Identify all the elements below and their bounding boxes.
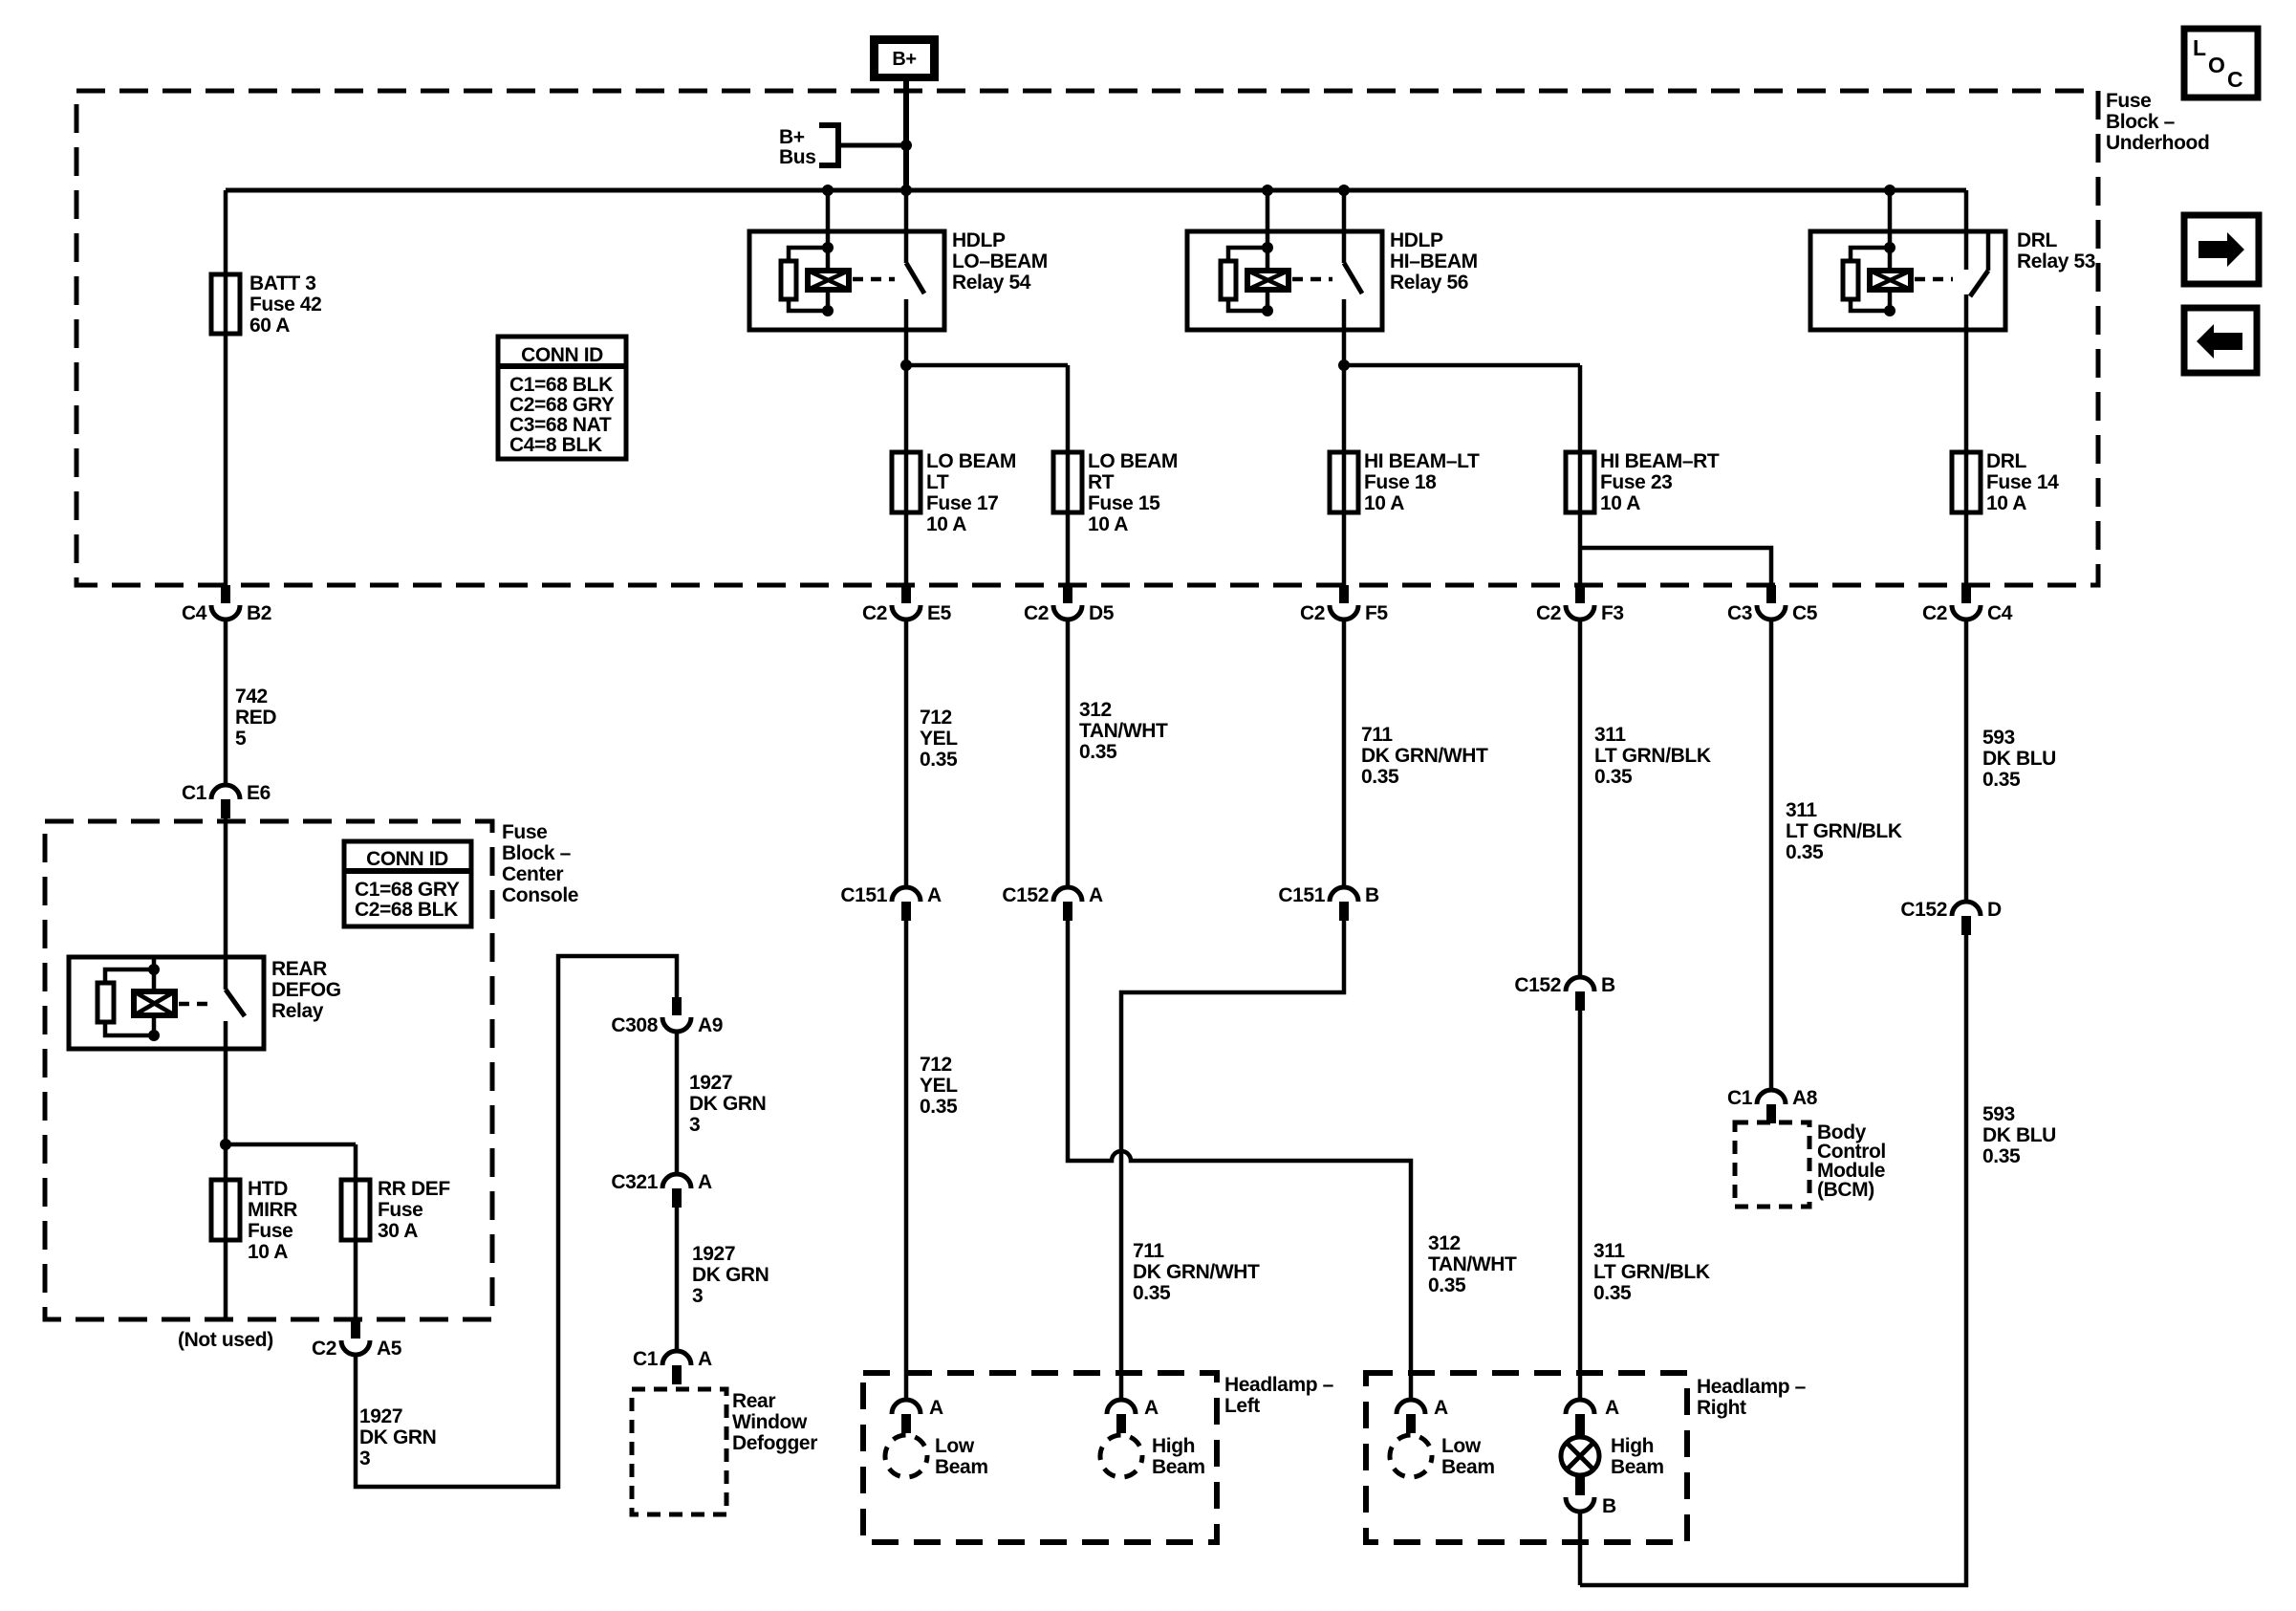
icon arrow right: [2184, 215, 2259, 284]
fuse HI BEAM-LT Fuse 18: [1330, 450, 1480, 514]
svg-text:0.35: 0.35: [1428, 1274, 1466, 1296]
svg-text:Relay 56: Relay 56: [1390, 272, 1468, 294]
svg-text:Relay 54: Relay 54: [952, 272, 1031, 294]
wire 712 YEL upper: [906, 620, 958, 887]
wire BATT fuse to C4: [224, 190, 228, 585]
svg-text:312: 312: [1428, 1232, 1461, 1254]
svg-text:C2: C2: [1922, 602, 1947, 624]
wire 311 LT GRN/BLK to BCM: [1771, 620, 1902, 1090]
svg-text:DEFOG: DEFOG: [271, 979, 341, 1001]
svg-text:Fuse 15: Fuse 15: [1088, 492, 1160, 514]
svg-text:593: 593: [1982, 1103, 2015, 1125]
svg-text:B+: B+: [779, 126, 805, 148]
svg-text:Relay: Relay: [271, 1000, 324, 1022]
svg-text:C4=8 BLK: C4=8 BLK: [509, 434, 602, 456]
fuse block underhood dashed box: [76, 91, 2098, 585]
svg-text:REAR: REAR: [271, 958, 327, 980]
svg-text:HI–BEAM: HI–BEAM: [1390, 250, 1478, 272]
svg-text:C1=68 GRY: C1=68 GRY: [355, 879, 460, 901]
module Body Control Module BCM: [1735, 1121, 1886, 1207]
relay HDLP HI-BEAM Relay 56: [1187, 190, 1478, 365]
svg-text:Beam: Beam: [935, 1456, 988, 1478]
svg-text:30 A: 30 A: [378, 1220, 418, 1242]
fuse LO BEAM LT Fuse 17: [892, 450, 1016, 535]
svg-text:0.35: 0.35: [1079, 741, 1117, 763]
svg-text:DK GRN: DK GRN: [689, 1093, 766, 1115]
wire 712 YEL lower: [906, 921, 958, 1400]
svg-text:E6: E6: [247, 782, 271, 804]
svg-text:(BCM): (BCM): [1817, 1179, 1874, 1201]
wire HTD MIRR not used: [178, 1144, 273, 1351]
svg-text:593: 593: [1982, 727, 2015, 749]
svg-text:Beam: Beam: [1611, 1456, 1664, 1478]
svg-text:A: A: [1434, 1397, 1448, 1419]
svg-text:TAN/WHT: TAN/WHT: [1079, 720, 1168, 742]
svg-text:HDLP: HDLP: [1390, 229, 1443, 251]
bulb high beam right: [1561, 1397, 1664, 1495]
wire 711 DK GRN/WHT upper: [1344, 620, 1488, 887]
svg-text:Fuse: Fuse: [378, 1199, 422, 1221]
svg-text:0.35: 0.35: [1982, 769, 2021, 791]
connector C4 B2: [182, 585, 271, 624]
wire 1927 DK GRN to C308: [356, 956, 677, 1487]
svg-text:LO BEAM: LO BEAM: [1088, 450, 1178, 472]
svg-text:0.35: 0.35: [1786, 841, 1824, 863]
svg-text:YEL: YEL: [920, 728, 958, 750]
svg-text:Underhood: Underhood: [2106, 132, 2209, 154]
connector C3 C5: [1727, 585, 1818, 624]
fuse block center console dashed box: [45, 821, 492, 1319]
svg-text:C151: C151: [1278, 884, 1325, 906]
connector C321 A: [611, 1171, 712, 1208]
svg-text:DK GRN: DK GRN: [359, 1426, 436, 1448]
svg-text:311: 311: [1594, 724, 1626, 746]
svg-text:B: B: [1601, 974, 1615, 996]
wire 311 LT GRN/BLK upper: [1580, 620, 1711, 977]
svg-text:0.35: 0.35: [1133, 1282, 1171, 1304]
node B+ Bus tap: [779, 125, 912, 168]
power symbol B+: [870, 35, 939, 81]
icon arrow left: [2184, 308, 2257, 373]
wire 1927 DK GRN lower: [677, 1208, 769, 1351]
svg-text:C2=68 GRY: C2=68 GRY: [509, 394, 615, 416]
svg-text:F3: F3: [1601, 602, 1624, 624]
label Fuse Block - Center Console: [502, 821, 578, 906]
svg-text:B+: B+: [892, 49, 916, 70]
svg-text:RED: RED: [235, 707, 276, 729]
svg-text:Block –: Block –: [502, 842, 572, 864]
wire 311 LT GRN/BLK lower: [1580, 1011, 1710, 1400]
svg-text:10 A: 10 A: [926, 513, 966, 535]
connector C1 A defogger: [633, 1348, 712, 1384]
svg-text:Beam: Beam: [1152, 1456, 1205, 1478]
connector C2 E5: [862, 585, 952, 624]
wire 593 DK BLU lower: [1580, 935, 2056, 1585]
svg-text:60 A: 60 A: [249, 315, 290, 337]
svg-text:C2: C2: [1300, 602, 1325, 624]
svg-text:311: 311: [1593, 1240, 1625, 1262]
fuse HTD MIRR 10A: [211, 1178, 297, 1263]
svg-text:A: A: [698, 1348, 712, 1370]
svg-text:711: 711: [1133, 1240, 1164, 1262]
svg-text:RR DEF: RR DEF: [378, 1178, 450, 1200]
svg-text:A5: A5: [377, 1338, 402, 1360]
wire HI-BEAM relay out / junction: [1338, 359, 1580, 371]
svg-text:Fuse: Fuse: [248, 1220, 292, 1242]
wire B+ feed: [903, 81, 909, 190]
wire fuse 23 to C2 F3 and C3 C5 branch: [1580, 365, 1771, 585]
svg-text:0.35: 0.35: [1982, 1145, 2021, 1167]
svg-text:LT: LT: [926, 471, 949, 493]
svg-text:0.35: 0.35: [1594, 766, 1633, 788]
svg-text:C2: C2: [312, 1338, 336, 1360]
svg-text:5: 5: [235, 728, 247, 750]
svg-text:0.35: 0.35: [1593, 1282, 1632, 1304]
bulb low beam left: [885, 1397, 988, 1478]
svg-text:312: 312: [1079, 699, 1112, 721]
svg-text:C308: C308: [611, 1014, 658, 1036]
svg-text:DK BLU: DK BLU: [1982, 1124, 2056, 1146]
bulb high beam left: [1100, 1397, 1205, 1478]
svg-text:High: High: [1611, 1435, 1654, 1457]
svg-text:D: D: [1987, 899, 2002, 921]
svg-text:C4: C4: [182, 602, 207, 624]
label Fuse Block - Underhood: [2106, 90, 2209, 154]
svg-text:712: 712: [920, 707, 952, 729]
headlamp left dashed box: [863, 1373, 1334, 1542]
svg-text:Fuse 42: Fuse 42: [249, 294, 321, 316]
svg-text:742: 742: [235, 686, 268, 708]
connector C2 A5: [312, 1320, 402, 1360]
wire 312 TAN/WHT lower with crossover hop: [1068, 921, 1517, 1400]
svg-text:A: A: [927, 884, 942, 906]
svg-text:Fuse 17: Fuse 17: [926, 492, 998, 514]
svg-text:C3=68 NAT: C3=68 NAT: [509, 414, 612, 436]
svg-text:1927: 1927: [359, 1405, 402, 1427]
svg-text:C151: C151: [840, 884, 887, 906]
svg-text:0.35: 0.35: [1361, 766, 1399, 788]
svg-text:Left: Left: [1224, 1395, 1260, 1417]
svg-text:C321: C321: [611, 1171, 658, 1193]
svg-text:Fuse 14: Fuse 14: [1986, 471, 2059, 493]
svg-text:C2: C2: [1024, 602, 1049, 624]
svg-text:C152: C152: [1002, 884, 1049, 906]
fuse HI BEAM-RT Fuse 23: [1566, 450, 1720, 514]
connector C2 F3: [1536, 585, 1624, 624]
wire RR DEF to C2 A5: [354, 1144, 358, 1320]
svg-text:B: B: [1602, 1495, 1616, 1517]
svg-text:B2: B2: [247, 602, 271, 624]
svg-text:10 A: 10 A: [1364, 492, 1404, 514]
connector B high beam right: [1566, 1495, 1616, 1517]
svg-text:Window: Window: [732, 1411, 808, 1433]
svg-text:10 A: 10 A: [1088, 513, 1128, 535]
fuse BATT 3 Fuse 42 60A: [211, 272, 321, 337]
svg-text:C1: C1: [633, 1348, 659, 1370]
relay HDLP LO-BEAM Relay 54: [749, 190, 1048, 365]
svg-text:E5: E5: [927, 602, 952, 624]
svg-text:HTD: HTD: [248, 1178, 288, 1200]
svg-text:1927: 1927: [689, 1072, 732, 1094]
svg-text:TAN/WHT: TAN/WHT: [1428, 1253, 1517, 1275]
connector C1 A8: [1727, 1087, 1818, 1123]
connector C2 F5: [1300, 585, 1388, 624]
icon LOC: [2184, 29, 2258, 98]
svg-text:B: B: [1365, 884, 1379, 906]
svg-text:LO BEAM: LO BEAM: [926, 450, 1016, 472]
bulb low beam right: [1390, 1397, 1495, 1478]
svg-text:HDLP: HDLP: [952, 229, 1006, 251]
connector C151 B: [1278, 884, 1379, 921]
svg-text:C4: C4: [1987, 602, 2013, 624]
table CONN ID underhood: [498, 337, 626, 459]
table CONN ID center console: [344, 841, 471, 926]
connector C152 A: [1002, 884, 1103, 921]
svg-text:O: O: [2208, 53, 2225, 77]
svg-text:DK GRN/WHT: DK GRN/WHT: [1361, 745, 1488, 767]
connector C2 C4: [1922, 585, 2013, 624]
connector C151 A: [840, 884, 942, 921]
fuse RR DEF 30A: [341, 1178, 450, 1242]
wire 742 RED 5: [226, 620, 276, 785]
svg-text:DK GRN/WHT: DK GRN/WHT: [1133, 1261, 1260, 1283]
wire high beam right return: [1578, 1512, 1583, 1585]
svg-text:DRL: DRL: [1986, 450, 2027, 472]
svg-text:A: A: [698, 1171, 712, 1193]
svg-text:C5: C5: [1792, 602, 1818, 624]
svg-text:High: High: [1152, 1435, 1195, 1457]
svg-text:BATT 3: BATT 3: [249, 272, 316, 294]
svg-text:A8: A8: [1792, 1087, 1818, 1109]
svg-text:Fuse: Fuse: [2106, 90, 2151, 112]
svg-text:711: 711: [1361, 724, 1393, 746]
svg-text:YEL: YEL: [920, 1075, 958, 1097]
wire LO-BEAM relay out / junction: [900, 359, 1068, 371]
wire fuse 15 to C2 D5: [1066, 365, 1071, 585]
relay DRL Relay 53: [1810, 190, 2095, 452]
svg-text:DRL: DRL: [2017, 229, 2058, 251]
svg-text:3: 3: [689, 1114, 700, 1136]
wire 593 DK BLU upper: [1966, 620, 2056, 902]
svg-text:Headlamp –: Headlamp –: [1224, 1374, 1334, 1396]
wire B+ bus rail: [226, 185, 1966, 196]
svg-text:MIRR: MIRR: [248, 1199, 297, 1221]
svg-text:10 A: 10 A: [1600, 492, 1640, 514]
wire fuse 17 to C2 E5: [904, 365, 909, 585]
svg-text:Fuse 23: Fuse 23: [1600, 471, 1672, 493]
svg-text:Low: Low: [1441, 1435, 1482, 1457]
svg-text:C3: C3: [1727, 602, 1752, 624]
wire C1 E6 to defog relay: [224, 818, 228, 990]
svg-text:3: 3: [359, 1448, 370, 1469]
svg-text:RT: RT: [1088, 471, 1115, 493]
connector C152 D: [1900, 899, 2002, 935]
svg-text:LO–BEAM: LO–BEAM: [952, 250, 1048, 272]
svg-text:A: A: [1605, 1397, 1619, 1419]
svg-text:F5: F5: [1365, 602, 1388, 624]
svg-text:C2: C2: [1536, 602, 1561, 624]
svg-text:C: C: [2227, 67, 2242, 92]
svg-text:Fuse: Fuse: [502, 821, 547, 843]
svg-text:Center: Center: [502, 863, 563, 885]
svg-text:C1: C1: [182, 782, 207, 804]
svg-text:HI BEAM–RT: HI BEAM–RT: [1600, 450, 1720, 472]
svg-text:C1: C1: [1727, 1087, 1753, 1109]
svg-text:Rear: Rear: [732, 1390, 775, 1412]
svg-text:DK GRN: DK GRN: [692, 1264, 769, 1286]
wire fuse 18 to C2 F5: [1342, 365, 1347, 585]
svg-text:10 A: 10 A: [1986, 492, 2026, 514]
svg-text:Headlamp –: Headlamp –: [1697, 1376, 1807, 1398]
svg-text:Defogger: Defogger: [732, 1432, 817, 1454]
relay REAR DEFOG: [69, 957, 341, 1144]
connector C1 E6: [182, 782, 271, 818]
fuse LO BEAM RT Fuse 15: [1053, 450, 1178, 535]
svg-text:A: A: [929, 1397, 943, 1419]
svg-text:Bus: Bus: [779, 146, 815, 168]
svg-text:A9: A9: [698, 1014, 723, 1036]
svg-text:Fuse 18: Fuse 18: [1364, 471, 1437, 493]
svg-text:C152: C152: [1900, 899, 1947, 921]
svg-text:HI BEAM–LT: HI BEAM–LT: [1364, 450, 1480, 472]
headlamp right dashed box: [1366, 1373, 1807, 1542]
rear window defogger box: [632, 1389, 817, 1514]
svg-text:Console: Console: [502, 884, 578, 906]
svg-text:(Not used): (Not used): [178, 1329, 273, 1351]
wire fuse 14 to C2 C4: [1964, 452, 1969, 585]
svg-text:LT GRN/BLK: LT GRN/BLK: [1786, 820, 1902, 842]
svg-text:10 A: 10 A: [248, 1241, 288, 1263]
svg-text:C2=68 BLK: C2=68 BLK: [355, 899, 458, 921]
svg-text:LT GRN/BLK: LT GRN/BLK: [1593, 1261, 1710, 1283]
svg-text:Low: Low: [935, 1435, 975, 1457]
svg-text:Right: Right: [1697, 1397, 1746, 1419]
svg-text:C2: C2: [862, 602, 887, 624]
svg-text:DK BLU: DK BLU: [1982, 748, 2056, 770]
svg-text:L: L: [2193, 35, 2206, 60]
svg-text:C1=68 BLK: C1=68 BLK: [509, 374, 613, 396]
connector C308 A9: [611, 997, 723, 1036]
svg-text:C152: C152: [1514, 974, 1561, 996]
connector C152 B: [1514, 974, 1615, 1011]
svg-text:0.35: 0.35: [920, 749, 958, 771]
svg-text:CONN ID: CONN ID: [521, 344, 603, 366]
svg-text:CONN ID: CONN ID: [366, 848, 448, 870]
svg-text:Beam: Beam: [1441, 1456, 1495, 1478]
wire 1927 DK GRN mid: [677, 1032, 766, 1174]
wire defog branch junction: [220, 1139, 356, 1150]
connector C2 D5: [1024, 585, 1115, 624]
svg-text:712: 712: [920, 1054, 952, 1076]
svg-text:311: 311: [1786, 799, 1817, 821]
svg-text:A: A: [1144, 1397, 1159, 1419]
wire 312 TAN/WHT upper: [1068, 620, 1168, 887]
wire 711 DK GRN/WHT lower: [1121, 921, 1344, 1400]
svg-text:3: 3: [692, 1285, 703, 1307]
svg-text:0.35: 0.35: [920, 1096, 958, 1118]
svg-text:Relay 53: Relay 53: [2017, 250, 2095, 272]
svg-text:D5: D5: [1089, 602, 1115, 624]
svg-text:1927: 1927: [692, 1243, 735, 1265]
svg-text:A: A: [1089, 884, 1103, 906]
svg-text:Block –: Block –: [2106, 111, 2176, 133]
fuse DRL Fuse 14: [1952, 450, 2059, 514]
svg-text:LT GRN/BLK: LT GRN/BLK: [1594, 745, 1711, 767]
